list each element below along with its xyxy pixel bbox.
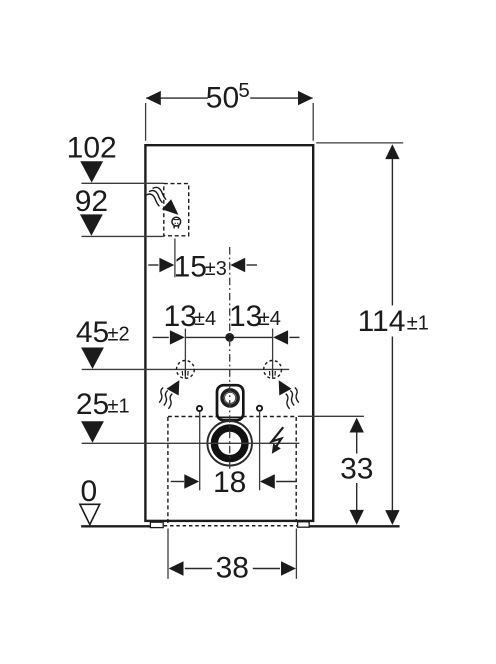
- arrowhead 15±3 pointing right: [159, 258, 174, 272]
- svg-text:±1: ±1: [407, 313, 429, 335]
- svg-text:33: 33: [340, 452, 373, 485]
- level marker triangle 25: [81, 421, 104, 442]
- extension line right fixing point: [272, 329, 274, 379]
- dimension line 15±3 right tail: [247, 264, 258, 266]
- level line 92: [81, 235, 163, 237]
- dashed box around odour extraction outlet: [164, 184, 189, 236]
- svg-text:38: 38: [216, 552, 249, 585]
- extension line 38 right: [295, 529, 297, 579]
- svg-text:92: 92: [75, 185, 108, 218]
- level line 25 (through drain centre): [82, 442, 300, 444]
- level marker triangle 92: [80, 214, 103, 235]
- left supply bolt: [197, 406, 202, 411]
- svg-text:45: 45: [76, 316, 109, 349]
- dimension line 38 right segment: [253, 568, 280, 570]
- svg-text:15: 15: [174, 250, 207, 283]
- extension line right of top width dimension: [312, 103, 314, 141]
- arrowhead 18 right pointing left: [260, 474, 275, 488]
- arrowhead 15±3 pointing left: [230, 258, 245, 272]
- dashed circle right fixing point: [264, 361, 282, 379]
- extension line left of top width dimension: [145, 103, 147, 141]
- water supply ring: [222, 390, 238, 406]
- level line 102: [81, 182, 163, 184]
- svg-text:±1: ±1: [108, 396, 130, 418]
- arrowhead 38 pointing left: [169, 561, 184, 575]
- arrowhead 33 pointing down: [350, 510, 364, 525]
- right supply bolt: [257, 406, 262, 411]
- extension line 38 left: [167, 529, 169, 579]
- svg-text:5: 5: [238, 79, 249, 102]
- floor line left segment: [81, 525, 150, 527]
- arrowhead lower-left pointing to fixing point: [167, 380, 180, 395]
- wavy flow lines lower-right arrow: [286, 394, 290, 409]
- svg-text:±4: ±4: [259, 308, 281, 330]
- drain pipe thick ring: [214, 428, 245, 459]
- dimension line 18 right tail: [276, 481, 296, 483]
- right foot of module: [298, 522, 310, 527]
- arrowhead lower-right pointing to fixing point: [279, 380, 292, 395]
- air flow arrowhead pointing to outlet: [162, 199, 179, 215]
- hidden edge dashed line between feet: [164, 525, 298, 527]
- water supply connection bracket: [217, 385, 243, 420]
- dimension 114 vertical line lower: [391, 337, 393, 511]
- dimension line 38 left segment: [185, 568, 212, 570]
- bracket inner bottom edge: [219, 416, 242, 418]
- dimension 33 vertical line lower: [356, 483, 358, 510]
- arrowhead 33 pointing up: [350, 418, 364, 433]
- dashed circle left fixing point: [177, 361, 195, 379]
- svg-text:114: 114: [358, 305, 406, 338]
- extension line left fixing point: [184, 329, 186, 379]
- arrowhead 38 pointing right: [281, 561, 296, 575]
- dimension line 18 left tail: [171, 481, 184, 483]
- svg-text:13: 13: [229, 300, 262, 333]
- level line 45: [82, 368, 290, 370]
- svg-text:±4: ±4: [194, 308, 216, 330]
- node dot at centre of 13±4 dimensions: [225, 333, 234, 342]
- floor line right segment: [309, 525, 399, 527]
- hatch marks in right fixing point: [270, 371, 276, 376]
- module outline (main rectangle): [145, 145, 313, 521]
- left foot of module: [150, 522, 163, 527]
- level marker triangle 102: [80, 161, 103, 182]
- arrowhead 114 pointing down: [385, 510, 399, 525]
- svg-text:0: 0: [80, 475, 97, 508]
- drain pipe outer circle: [207, 421, 252, 466]
- svg-text:25: 25: [76, 388, 109, 421]
- extension line for 114 dimension (top): [316, 142, 403, 144]
- dimension 114 vertical line upper: [391, 159, 393, 306]
- air flow wavy lines (top left): [153, 187, 167, 199]
- dimension line 15±3 left tail: [148, 264, 158, 266]
- extension line below outlet box (15 dim): [174, 239, 176, 278]
- svg-text:18: 18: [213, 466, 246, 499]
- svg-text:13: 13: [164, 300, 197, 333]
- level marker triangle 45: [81, 348, 104, 369]
- lightning bolt (electrical connection): [272, 427, 283, 447]
- dimension line 13±4 (right tail): [289, 336, 299, 338]
- arrowhead 13±4 right pointing left: [273, 330, 288, 344]
- arrowhead left of 50.5 dimension: [146, 91, 161, 105]
- svg-text:±2: ±2: [108, 324, 130, 346]
- arrowhead 114 pointing up: [385, 144, 399, 159]
- wavy flow lines lower-left arrow: [168, 394, 172, 409]
- arrowhead 18 left pointing right: [184, 474, 199, 488]
- svg-text:50: 50: [206, 82, 239, 115]
- dashed box around connection zone (38 wide): [168, 417, 296, 525]
- extension line from right bolt: [259, 412, 261, 490]
- water supply ring inner edge: [225, 392, 236, 403]
- dimension line 13±4 middle: [185, 336, 272, 338]
- odour extraction outlet icon: [172, 217, 181, 228]
- extension line from left bolt: [199, 412, 201, 490]
- dimension line 13±4 (left tail): [153, 336, 169, 338]
- dimension 33 vertical line upper: [356, 432, 358, 454]
- open triangle marker floor level: [80, 504, 100, 524]
- dimension line 50.5 (top width): [146, 97, 208, 99]
- svg-text:±3: ±3: [205, 258, 227, 280]
- svg-text:102: 102: [67, 131, 117, 164]
- arrowhead 13±4 left pointing right: [170, 330, 185, 344]
- arrowhead right of 50.5 dimension: [298, 91, 313, 105]
- vertical centre line of module: [229, 247, 231, 470]
- extension line for 33 dimension: [298, 415, 364, 417]
- hatch marks in left fixing point: [182, 371, 188, 376]
